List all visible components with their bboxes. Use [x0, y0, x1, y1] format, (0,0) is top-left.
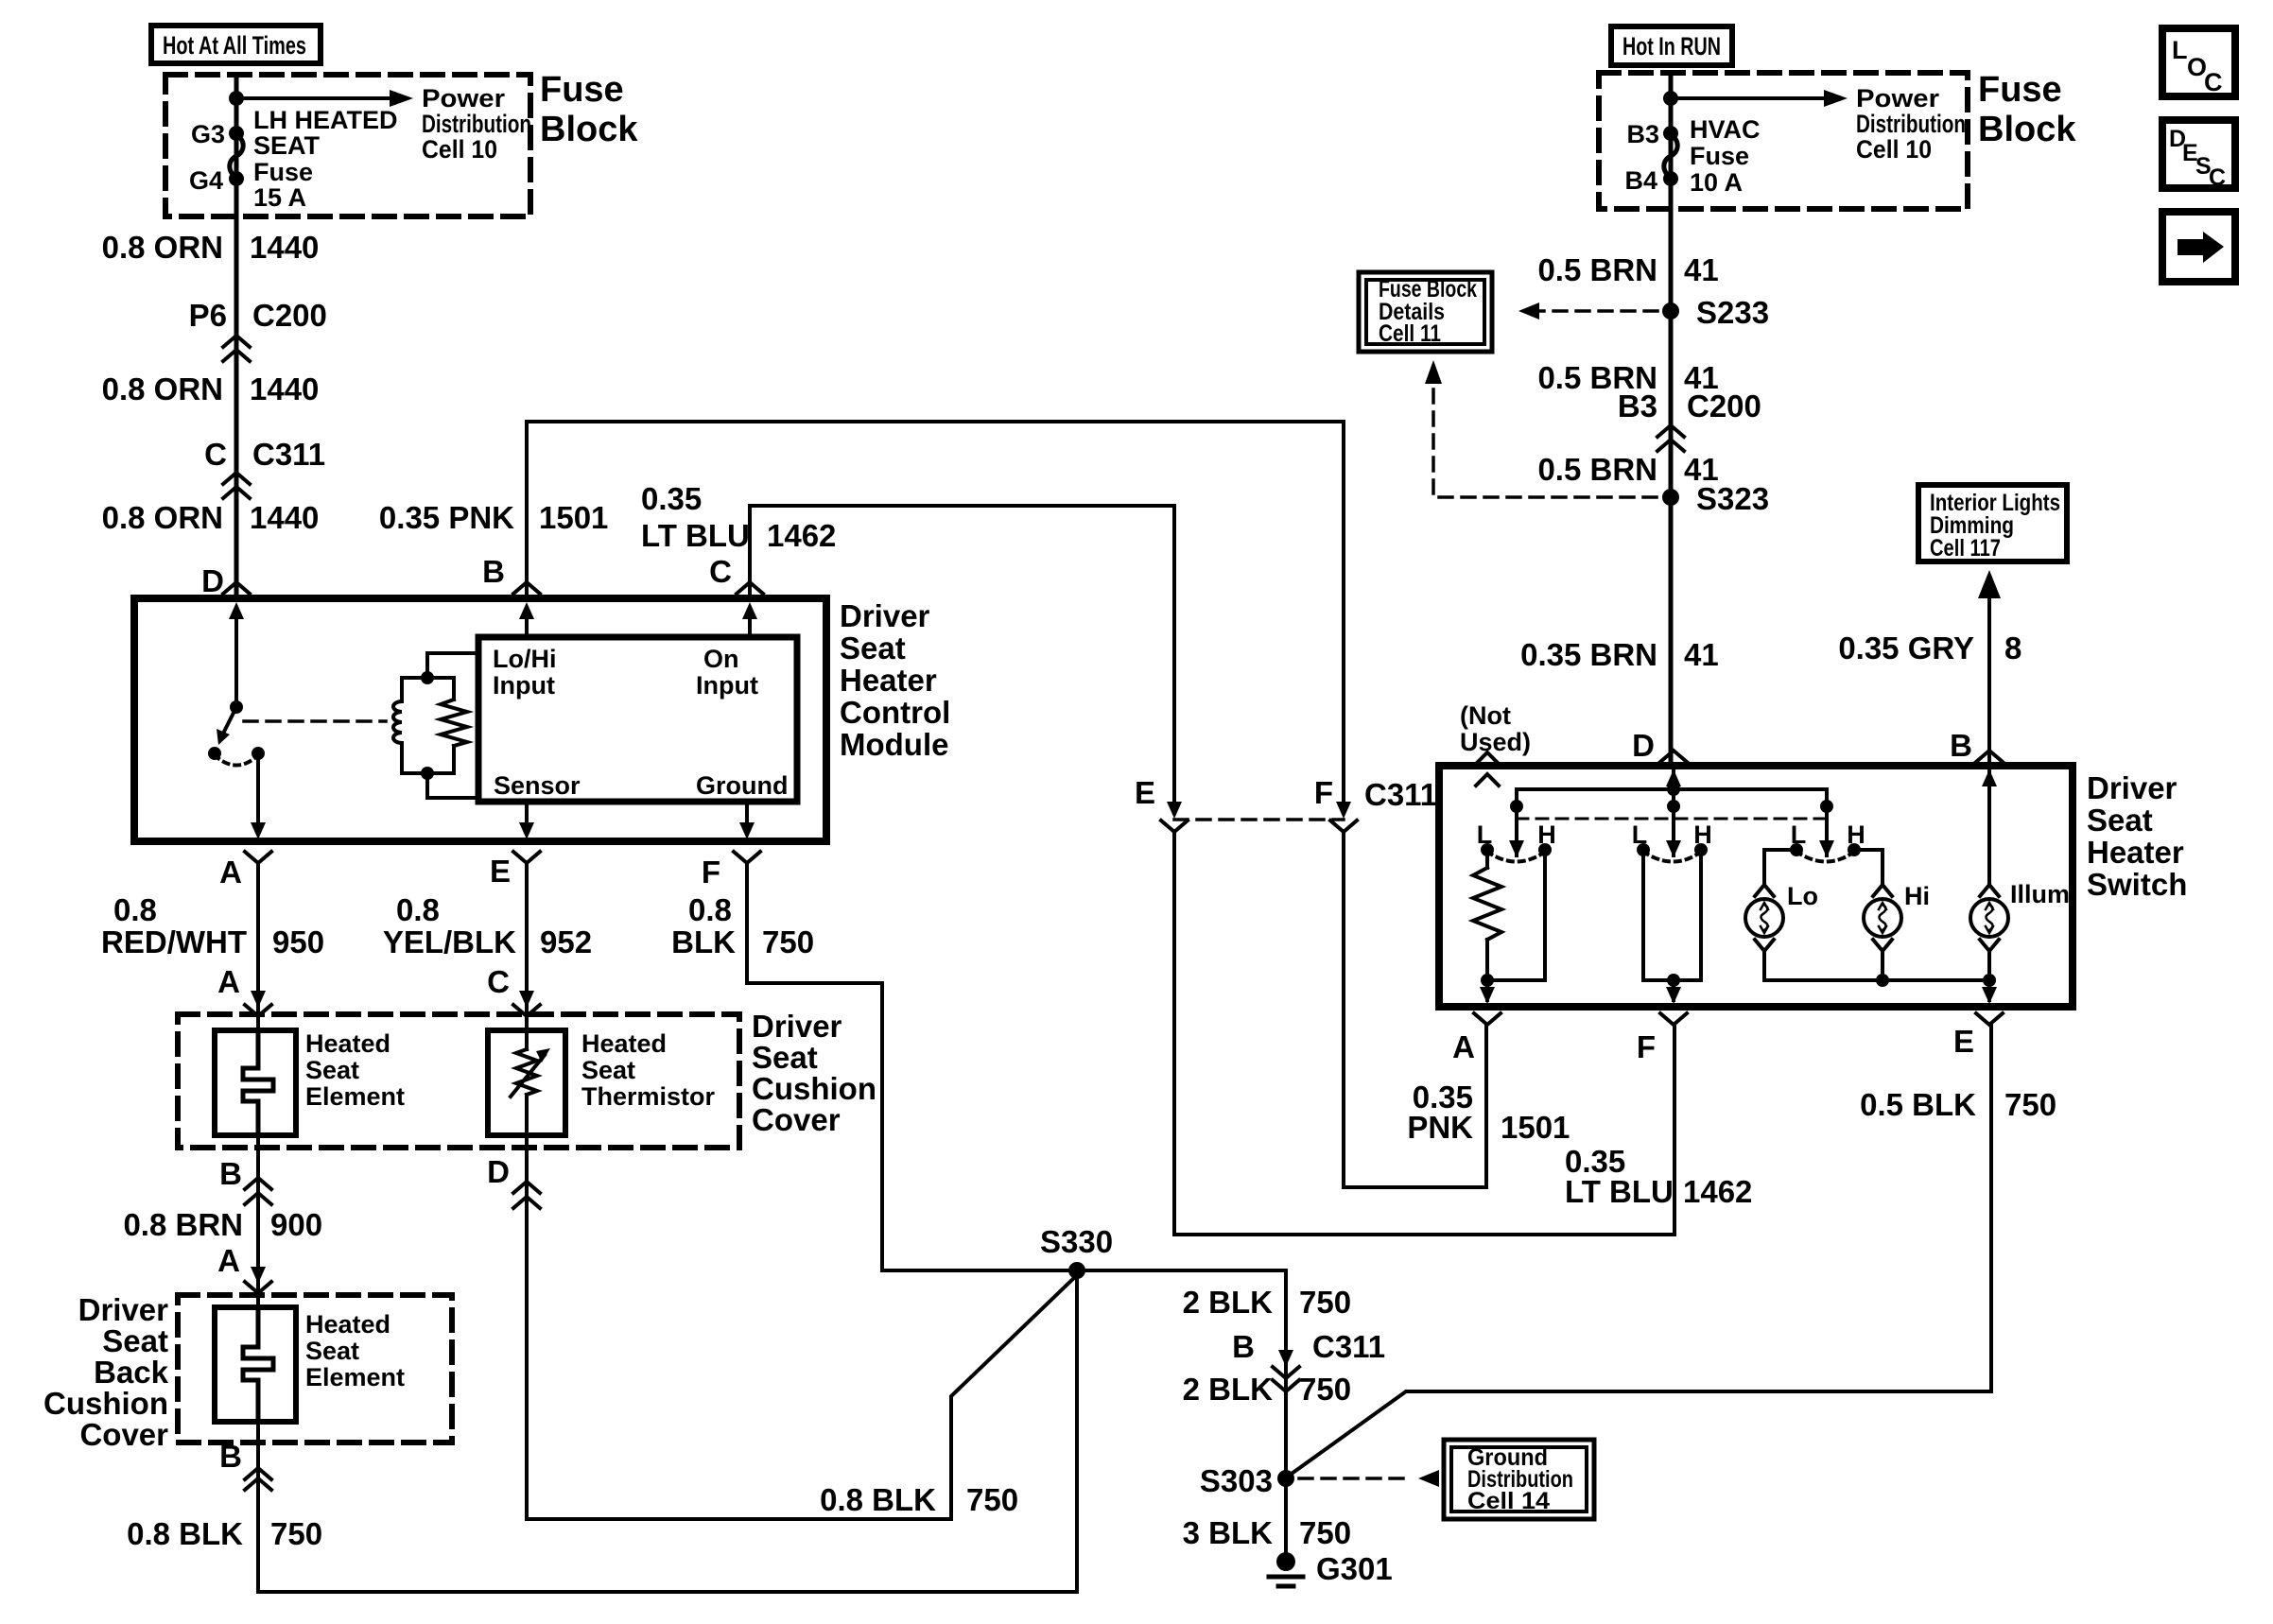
heated seat element (cushion) box	[215, 1030, 296, 1135]
contacts L/H section 2	[1632, 821, 1712, 862]
svg-text:950: 950	[272, 924, 324, 959]
switch pin B chevron and label	[1950, 728, 2003, 763]
heated seat element (cushion) symbol	[243, 1030, 273, 1135]
pin A inner arrow	[1480, 980, 1495, 1004]
wire back element B to S330	[258, 1278, 1077, 1592]
splice S233	[1662, 295, 1769, 330]
svg-text:15 A: 15 A	[253, 183, 306, 212]
svg-text:LT BLU: LT BLU	[1565, 1174, 1674, 1209]
wiper drop 3	[1819, 789, 1834, 857]
lamp Hi	[1854, 850, 1930, 980]
wire module E to thermistor C	[525, 863, 529, 1030]
svg-text:B: B	[1232, 1329, 1255, 1364]
svg-text:Fuse: Fuse	[1690, 142, 1749, 170]
svg-text:0.8: 0.8	[688, 892, 732, 927]
heated seat element (back) label	[305, 1310, 405, 1391]
pin C inner arrow	[742, 602, 757, 637]
fuse block (right) name	[1978, 70, 2076, 149]
svg-text:Hi: Hi	[1904, 882, 1930, 910]
Hot At All Times label box	[151, 26, 321, 63]
svg-text:Distribution: Distribution	[1856, 110, 1966, 138]
wire S330 to S303 to G301	[1284, 1270, 1288, 1562]
contacts L/H section 3	[1790, 821, 1865, 862]
node top of RL pair	[421, 671, 434, 684]
svg-text:Block: Block	[1978, 110, 2076, 149]
svg-text:Input: Input	[696, 671, 758, 700]
module pin A chevron and label	[219, 852, 271, 890]
module name	[840, 598, 950, 762]
svg-text:Illum: Illum	[2010, 880, 2070, 908]
svg-text:41: 41	[1684, 252, 1719, 287]
pin B inner arrow	[519, 602, 534, 637]
svg-text:Seat: Seat	[840, 631, 906, 665]
svg-text:0.8 ORN: 0.8 ORN	[102, 230, 223, 265]
relay contact to pin A	[252, 747, 265, 760]
node E return	[1983, 974, 1996, 987]
dashed actuator link	[244, 719, 386, 723]
svg-text:A: A	[1452, 1029, 1475, 1064]
wire: arrow to Power Distribution (left)	[236, 84, 531, 164]
svg-text:C200: C200	[1687, 389, 1761, 423]
label: 3 BLK 750	[1183, 1515, 1351, 1550]
relay contact (unused)	[208, 747, 221, 760]
node: junction in fuse block (right)	[1663, 91, 1678, 106]
svg-text:Cushion: Cushion	[752, 1071, 876, 1106]
lamp Illum fed from pin B	[1970, 766, 2070, 980]
svg-text:Seat: Seat	[102, 1323, 168, 1358]
svg-text:900: 900	[270, 1207, 322, 1242]
switch pin D chevron and label	[1632, 728, 1687, 763]
svg-text:41: 41	[1684, 637, 1719, 672]
forward arrow box	[2162, 212, 2235, 282]
relay coil (inductor)	[393, 678, 402, 773]
connector C311 pin F (arrow + chevron)	[1314, 775, 1437, 832]
svg-text:B3: B3	[1626, 120, 1659, 148]
svg-text:Seat: Seat	[305, 1056, 359, 1084]
svg-text:Control: Control	[840, 695, 950, 730]
svg-text:Fuse: Fuse	[1978, 70, 2062, 110]
svg-text:0.35 PNK: 0.35 PNK	[379, 500, 514, 535]
label: 0.8 BLK 750 (pin F)	[671, 892, 814, 959]
svg-text:Seat: Seat	[2087, 803, 2153, 838]
svg-text:G4: G4	[189, 166, 223, 195]
heated seat thermistor symbol	[511, 1030, 550, 1135]
label: 2 BLK 750 (below C311)	[1183, 1372, 1351, 1407]
fuse block (left) dashed outline	[165, 75, 530, 216]
svg-text:BLK: BLK	[671, 924, 736, 959]
svg-text:Sensor: Sensor	[494, 771, 581, 800]
element connector A chevrons	[217, 964, 271, 1016]
svg-text:Fuse: Fuse	[253, 158, 313, 186]
svg-text:Cell 14: Cell 14	[1467, 1488, 1550, 1514]
svg-text:F: F	[702, 855, 720, 890]
pin D inner arrow and riser	[1666, 766, 1681, 857]
svg-text:E: E	[490, 854, 511, 889]
fuse: LH HEATED SEAT Fuse 15 A (pins G3/G4)	[189, 106, 398, 212]
svg-text:C: C	[487, 964, 510, 999]
label: 0.8 BLK 750 (back element)	[127, 1516, 322, 1551]
connector C311 pin C	[204, 437, 325, 498]
svg-text:Lo: Lo	[1787, 882, 1818, 910]
module pin C chevron and label	[709, 554, 763, 594]
svg-text:E: E	[1953, 1024, 1974, 1059]
relay switch arm with arrowhead	[217, 707, 236, 745]
svg-text:Cell 10: Cell 10	[422, 135, 497, 164]
wire switch E to S303	[1292, 1026, 1991, 1474]
lamp return bus	[1764, 978, 1989, 982]
node F junction	[1667, 974, 1680, 987]
back element pin A chevrons	[217, 1243, 271, 1293]
svg-text:(Not: (Not	[1460, 701, 1511, 730]
svg-text:0.8 ORN: 0.8 ORN	[102, 371, 223, 406]
thermistor pin D chevrons	[487, 1154, 540, 1208]
svg-text:Module: Module	[840, 727, 948, 762]
svg-text:Driver: Driver	[752, 1009, 842, 1044]
svg-text:0.8 BLK: 0.8 BLK	[820, 1482, 936, 1517]
svg-text:0.8 ORN: 0.8 ORN	[102, 500, 223, 535]
svg-text:0.8 BRN: 0.8 BRN	[123, 1207, 243, 1242]
svg-text:SEAT: SEAT	[253, 131, 321, 160]
svg-text:B3: B3	[1618, 389, 1657, 423]
svg-text:On: On	[703, 645, 739, 673]
svg-text:Cover: Cover	[79, 1417, 168, 1452]
label: 0.35 LT BLU 1462 (upper)	[641, 481, 836, 553]
svg-text:0.8: 0.8	[113, 892, 157, 927]
(Not Used) pin	[1460, 701, 1531, 786]
svg-text:0.35 GRY: 0.35 GRY	[1838, 631, 1974, 665]
pin D inner arrow	[229, 602, 244, 707]
svg-text:Cell 10: Cell 10	[1856, 135, 1932, 164]
svg-text:0.8 BLK: 0.8 BLK	[127, 1516, 243, 1551]
Driver Seat Back Cushion Cover dashed box	[178, 1295, 452, 1443]
wire LT BLU: C311 E down over up to switch F	[1174, 832, 1674, 1235]
label: 0.5 BRN 41 (segment 2)	[1537, 360, 1718, 395]
svg-text:Heater: Heater	[2087, 835, 2184, 870]
connector C200 pin B3	[1618, 389, 1761, 451]
svg-text:Driver: Driver	[2087, 770, 2178, 805]
svg-text:750: 750	[1299, 1372, 1351, 1407]
fuse block (right) dashed outline	[1599, 73, 1968, 209]
svg-text:Switch: Switch	[2087, 867, 2187, 902]
svg-text:F: F	[1637, 1029, 1656, 1064]
heated seat element (back) symbol	[243, 1307, 273, 1422]
svg-text:B: B	[1950, 728, 1972, 763]
Hot In RUN label box	[1611, 26, 1732, 65]
switch pin A chevron and label	[1452, 1013, 1501, 1064]
svg-text:E: E	[1135, 775, 1155, 810]
svg-text:Hot At All Times: Hot At All Times	[163, 31, 306, 60]
label: 0.5 BRN 41 (segment 1)	[1537, 252, 1718, 287]
module pin E chevron and label	[490, 852, 540, 889]
svg-text:G3: G3	[191, 120, 225, 148]
svg-text:P6: P6	[189, 298, 227, 333]
module pin B chevron and label	[482, 554, 540, 594]
node: junction in fuse block (left)	[229, 91, 244, 106]
dashed gang line	[1517, 818, 1827, 821]
svg-text:YEL/BLK: YEL/BLK	[383, 924, 516, 959]
svg-text:C311: C311	[1312, 1329, 1385, 1364]
svg-text:Cell 117: Cell 117	[1930, 535, 2001, 561]
label: 0.35 GRY 8	[1838, 631, 2021, 665]
wire RL top to Lo/Hi input	[427, 653, 478, 678]
svg-text:0.8: 0.8	[396, 892, 440, 927]
label: 0.8 YEL/BLK 952	[383, 892, 592, 959]
svg-text:A: A	[217, 1243, 240, 1278]
svg-text:1440: 1440	[250, 371, 319, 406]
connector C200 pin P6	[189, 298, 327, 361]
pin E inner arrow	[1982, 980, 1997, 1004]
wire LT BLU: module C up over to C311 E	[750, 506, 1174, 805]
svg-text:C: C	[2204, 68, 2223, 96]
svg-text:10 A: 10 A	[1690, 168, 1743, 197]
svg-text:RED/WHT: RED/WHT	[101, 924, 247, 959]
wire: arrow to Power Distribution (right)	[1671, 84, 1966, 164]
H branch section 1	[1487, 850, 1545, 980]
switch name	[2087, 770, 2187, 902]
svg-text:Seat: Seat	[305, 1337, 359, 1365]
svg-text:2 BLK: 2 BLK	[1183, 1285, 1274, 1320]
svg-text:Cell 11: Cell 11	[1379, 320, 1441, 347]
svg-text:750: 750	[966, 1482, 1018, 1517]
svg-text:Lo/Hi: Lo/Hi	[493, 645, 557, 673]
module pin D chevron	[201, 563, 250, 598]
svg-text:Power: Power	[422, 84, 506, 112]
label: 0.8 BLK 750 (sensor return)	[820, 1482, 1018, 1517]
svg-text:Back: Back	[94, 1355, 169, 1390]
wire: left feed vertical ORN 1440 from fuse block to module pin D	[234, 75, 239, 598]
svg-text:Used): Used)	[1460, 728, 1531, 756]
svg-text:0.35: 0.35	[641, 481, 702, 516]
pin F inner arrow	[739, 802, 755, 839]
Driver Seat Back Cushion Cover name	[43, 1292, 169, 1452]
svg-text:Element: Element	[305, 1082, 405, 1111]
svg-text:S303: S303	[1200, 1463, 1273, 1498]
svg-text:Element: Element	[305, 1363, 405, 1391]
node bottom of RL pair	[421, 767, 434, 780]
svg-text:L: L	[2172, 36, 2188, 64]
resistor (Lo dropping)	[1473, 850, 1501, 980]
label: 0.35 BRN 41	[1520, 637, 1719, 672]
thermistor connector C chevrons	[487, 964, 540, 1016]
pin F inner arrow	[1666, 980, 1681, 1004]
wire thermistor D to S330	[527, 1135, 1077, 1519]
svg-text:Hot In RUN: Hot In RUN	[1622, 32, 1721, 60]
svg-text:0.5 BRN: 0.5 BRN	[1537, 452, 1657, 487]
svg-text:B: B	[219, 1439, 242, 1474]
splice S330	[882, 1224, 1286, 1279]
svg-text:LH HEATED: LH HEATED	[253, 106, 398, 134]
heated seat element (back) box	[215, 1307, 296, 1422]
svg-text:B: B	[219, 1156, 242, 1191]
wiper drop 2 node	[1667, 800, 1680, 813]
label: 0.35 PNK 1501 (lower)	[1407, 1080, 1570, 1145]
svg-text:S233: S233	[1696, 295, 1769, 330]
svg-text:Heater: Heater	[840, 663, 937, 698]
wire RL bottom to Sensor	[427, 773, 478, 798]
svg-text:Thermistor: Thermistor	[581, 1082, 716, 1111]
wire module F down right to S330	[747, 863, 882, 1270]
fuse: HVAC Fuse 10 A (pins B3/B4)	[1624, 115, 1760, 197]
svg-text:750: 750	[270, 1516, 322, 1551]
svg-text:D: D	[201, 563, 224, 598]
svg-text:HVAC: HVAC	[1690, 115, 1761, 144]
Driver Seat Cushion Cover dashed box	[178, 1014, 739, 1148]
svg-text:8: 8	[2004, 631, 2021, 665]
svg-text:Driver: Driver	[78, 1292, 169, 1327]
svg-text:A: A	[219, 855, 242, 890]
wire: right feed vertical BRN 41 to switch pin D	[1669, 73, 1674, 766]
svg-text:952: 952	[540, 924, 592, 959]
Interior Lights Dimming Cell 117 box	[1918, 485, 2067, 561]
heated seat thermistor label	[581, 1029, 716, 1111]
svg-text:3 BLK: 3 BLK	[1183, 1515, 1274, 1550]
contacts L/H section 1	[1477, 821, 1556, 862]
svg-text:Seat: Seat	[581, 1056, 635, 1084]
label: 0.8 ORN 1440 (segment 2)	[102, 371, 320, 406]
wire module A to element A	[256, 863, 260, 1030]
dashed arrow S233 to Fuse Block Details	[1518, 302, 1657, 320]
svg-text:Heated: Heated	[305, 1310, 390, 1339]
module pin F chevron and label	[702, 852, 760, 890]
label: 0.5 BLK 750	[1860, 1087, 2056, 1122]
svg-text:Cushion: Cushion	[43, 1386, 168, 1421]
svg-text:D: D	[487, 1154, 510, 1189]
svg-text:A: A	[217, 964, 240, 999]
dotted throw arc	[215, 755, 258, 766]
svg-text:B4: B4	[1624, 166, 1657, 195]
svg-text:S330: S330	[1040, 1224, 1113, 1259]
label: 0.35 LT BLU 1462 (lower)	[1565, 1144, 1752, 1209]
svg-text:750: 750	[1299, 1285, 1351, 1320]
coil suppression resistor	[441, 678, 467, 773]
label: 0.8 ORN 1440 (segment 1)	[102, 230, 320, 265]
svg-text:C311: C311	[252, 437, 325, 472]
svg-text:C: C	[709, 554, 732, 589]
svg-text:750: 750	[2004, 1087, 2056, 1122]
label: 0.5 BRN 41 (segment 3)	[1537, 452, 1718, 487]
wiper drop 1	[1509, 789, 1524, 857]
svg-text:750: 750	[762, 924, 814, 959]
svg-text:Distribution: Distribution	[422, 110, 531, 138]
node D bus	[1667, 783, 1680, 796]
ground G301	[1269, 1551, 1393, 1586]
connector C311 pin B	[1232, 1329, 1385, 1391]
svg-text:750: 750	[1299, 1515, 1351, 1550]
svg-text:Heated: Heated	[305, 1029, 390, 1058]
svg-text:C: C	[2209, 164, 2226, 191]
dashed arrow S303 to Ground Distribution	[1299, 1470, 1439, 1487]
DESC reference box	[2162, 120, 2235, 191]
label: 0.8 BRN 900	[123, 1207, 322, 1242]
svg-text:1440: 1440	[250, 230, 319, 265]
svg-text:2 BLK: 2 BLK	[1183, 1372, 1274, 1407]
heated seat thermistor box	[488, 1030, 565, 1135]
switch pin E chevron and label	[1953, 1013, 2003, 1059]
node Hi return	[1876, 974, 1889, 987]
LOC reference box	[2162, 28, 2235, 96]
pin E inner arrow	[519, 802, 534, 839]
section 2 branches	[1643, 850, 1701, 980]
svg-text:F: F	[1314, 775, 1333, 810]
Driver Seat Cushion Cover name	[752, 1009, 876, 1137]
svg-text:0.5 BRN: 0.5 BRN	[1537, 252, 1657, 287]
splice S303	[1200, 1463, 1294, 1498]
label: 2 BLK 750 (above C311)	[1183, 1285, 1351, 1320]
Fuse Block Details Cell 11 box	[1359, 272, 1492, 352]
label Lo/Hi Input	[493, 645, 557, 700]
wire PNK: module B up over to C311 F	[527, 422, 1344, 805]
label: 0.35 PNK 1501 (upper)	[379, 500, 609, 535]
svg-text:1440: 1440	[250, 500, 319, 535]
svg-text:Heated: Heated	[581, 1029, 667, 1058]
splice S323	[1662, 481, 1769, 516]
svg-text:C200: C200	[252, 298, 327, 333]
svg-text:Power: Power	[1856, 84, 1940, 112]
svg-text:LT BLU: LT BLU	[641, 518, 750, 553]
svg-text:PNK: PNK	[1407, 1110, 1473, 1145]
relay switch pivot	[230, 700, 243, 714]
svg-text:Cover: Cover	[752, 1102, 841, 1137]
svg-text:Ground: Ground	[696, 771, 788, 800]
svg-text:Fuse: Fuse	[540, 70, 624, 110]
svg-text:0.5 BLK: 0.5 BLK	[1860, 1087, 1976, 1122]
fuse block (left) name	[540, 70, 638, 149]
svg-text:C: C	[204, 437, 227, 472]
switch feed bus	[1517, 787, 1827, 791]
rails of RL pair	[402, 678, 454, 773]
svg-text:G301: G301	[1316, 1551, 1393, 1586]
switch pin F chevron and label	[1637, 1013, 1687, 1064]
module inner electronics box	[478, 637, 797, 802]
connector C311 pin E (arrow + chevron)	[1135, 775, 1188, 832]
wire switch B to Interior Lights with up arrow	[1978, 570, 2001, 766]
Ground Distribution Cell 14 box	[1444, 1440, 1594, 1519]
node A junction	[1481, 974, 1494, 987]
wire PNK: C311 F down over up to switch A	[1344, 832, 1486, 1187]
element pin B chevrons below cushion box	[219, 1156, 271, 1204]
wire element B to back element A	[256, 1135, 260, 1307]
svg-text:1462: 1462	[1683, 1174, 1752, 1209]
Driver Seat Heater Control Module box	[134, 598, 826, 841]
label: 0.8 RED/WHT 950	[101, 892, 324, 959]
svg-text:Block: Block	[540, 110, 638, 149]
svg-text:Input: Input	[493, 671, 555, 700]
svg-text:S323: S323	[1696, 481, 1769, 516]
svg-text:D: D	[1632, 728, 1655, 763]
svg-text:0.35 BRN: 0.35 BRN	[1520, 637, 1657, 672]
dashed path S323 to Fuse Block Details with up arrow	[1425, 360, 1657, 497]
svg-text:Seat: Seat	[752, 1040, 818, 1075]
dashed tie C311 E-F	[1174, 818, 1344, 821]
pin A inner arrow	[251, 753, 266, 839]
lamp Lo	[1745, 850, 1818, 980]
svg-text:1501: 1501	[539, 500, 608, 535]
svg-text:C311: C311	[1364, 777, 1437, 812]
label: 0.8 ORN 1440 (segment 3)	[102, 500, 320, 535]
Driver Seat Heater Switch box	[1439, 766, 2073, 1007]
svg-text:B: B	[482, 554, 505, 589]
back element pin B chevrons	[219, 1439, 271, 1490]
svg-text:Driver: Driver	[840, 598, 930, 633]
svg-text:1501: 1501	[1501, 1110, 1570, 1145]
label On Input	[696, 645, 758, 700]
heated seat element (cushion) label	[305, 1029, 405, 1111]
svg-text:1462: 1462	[767, 518, 836, 553]
